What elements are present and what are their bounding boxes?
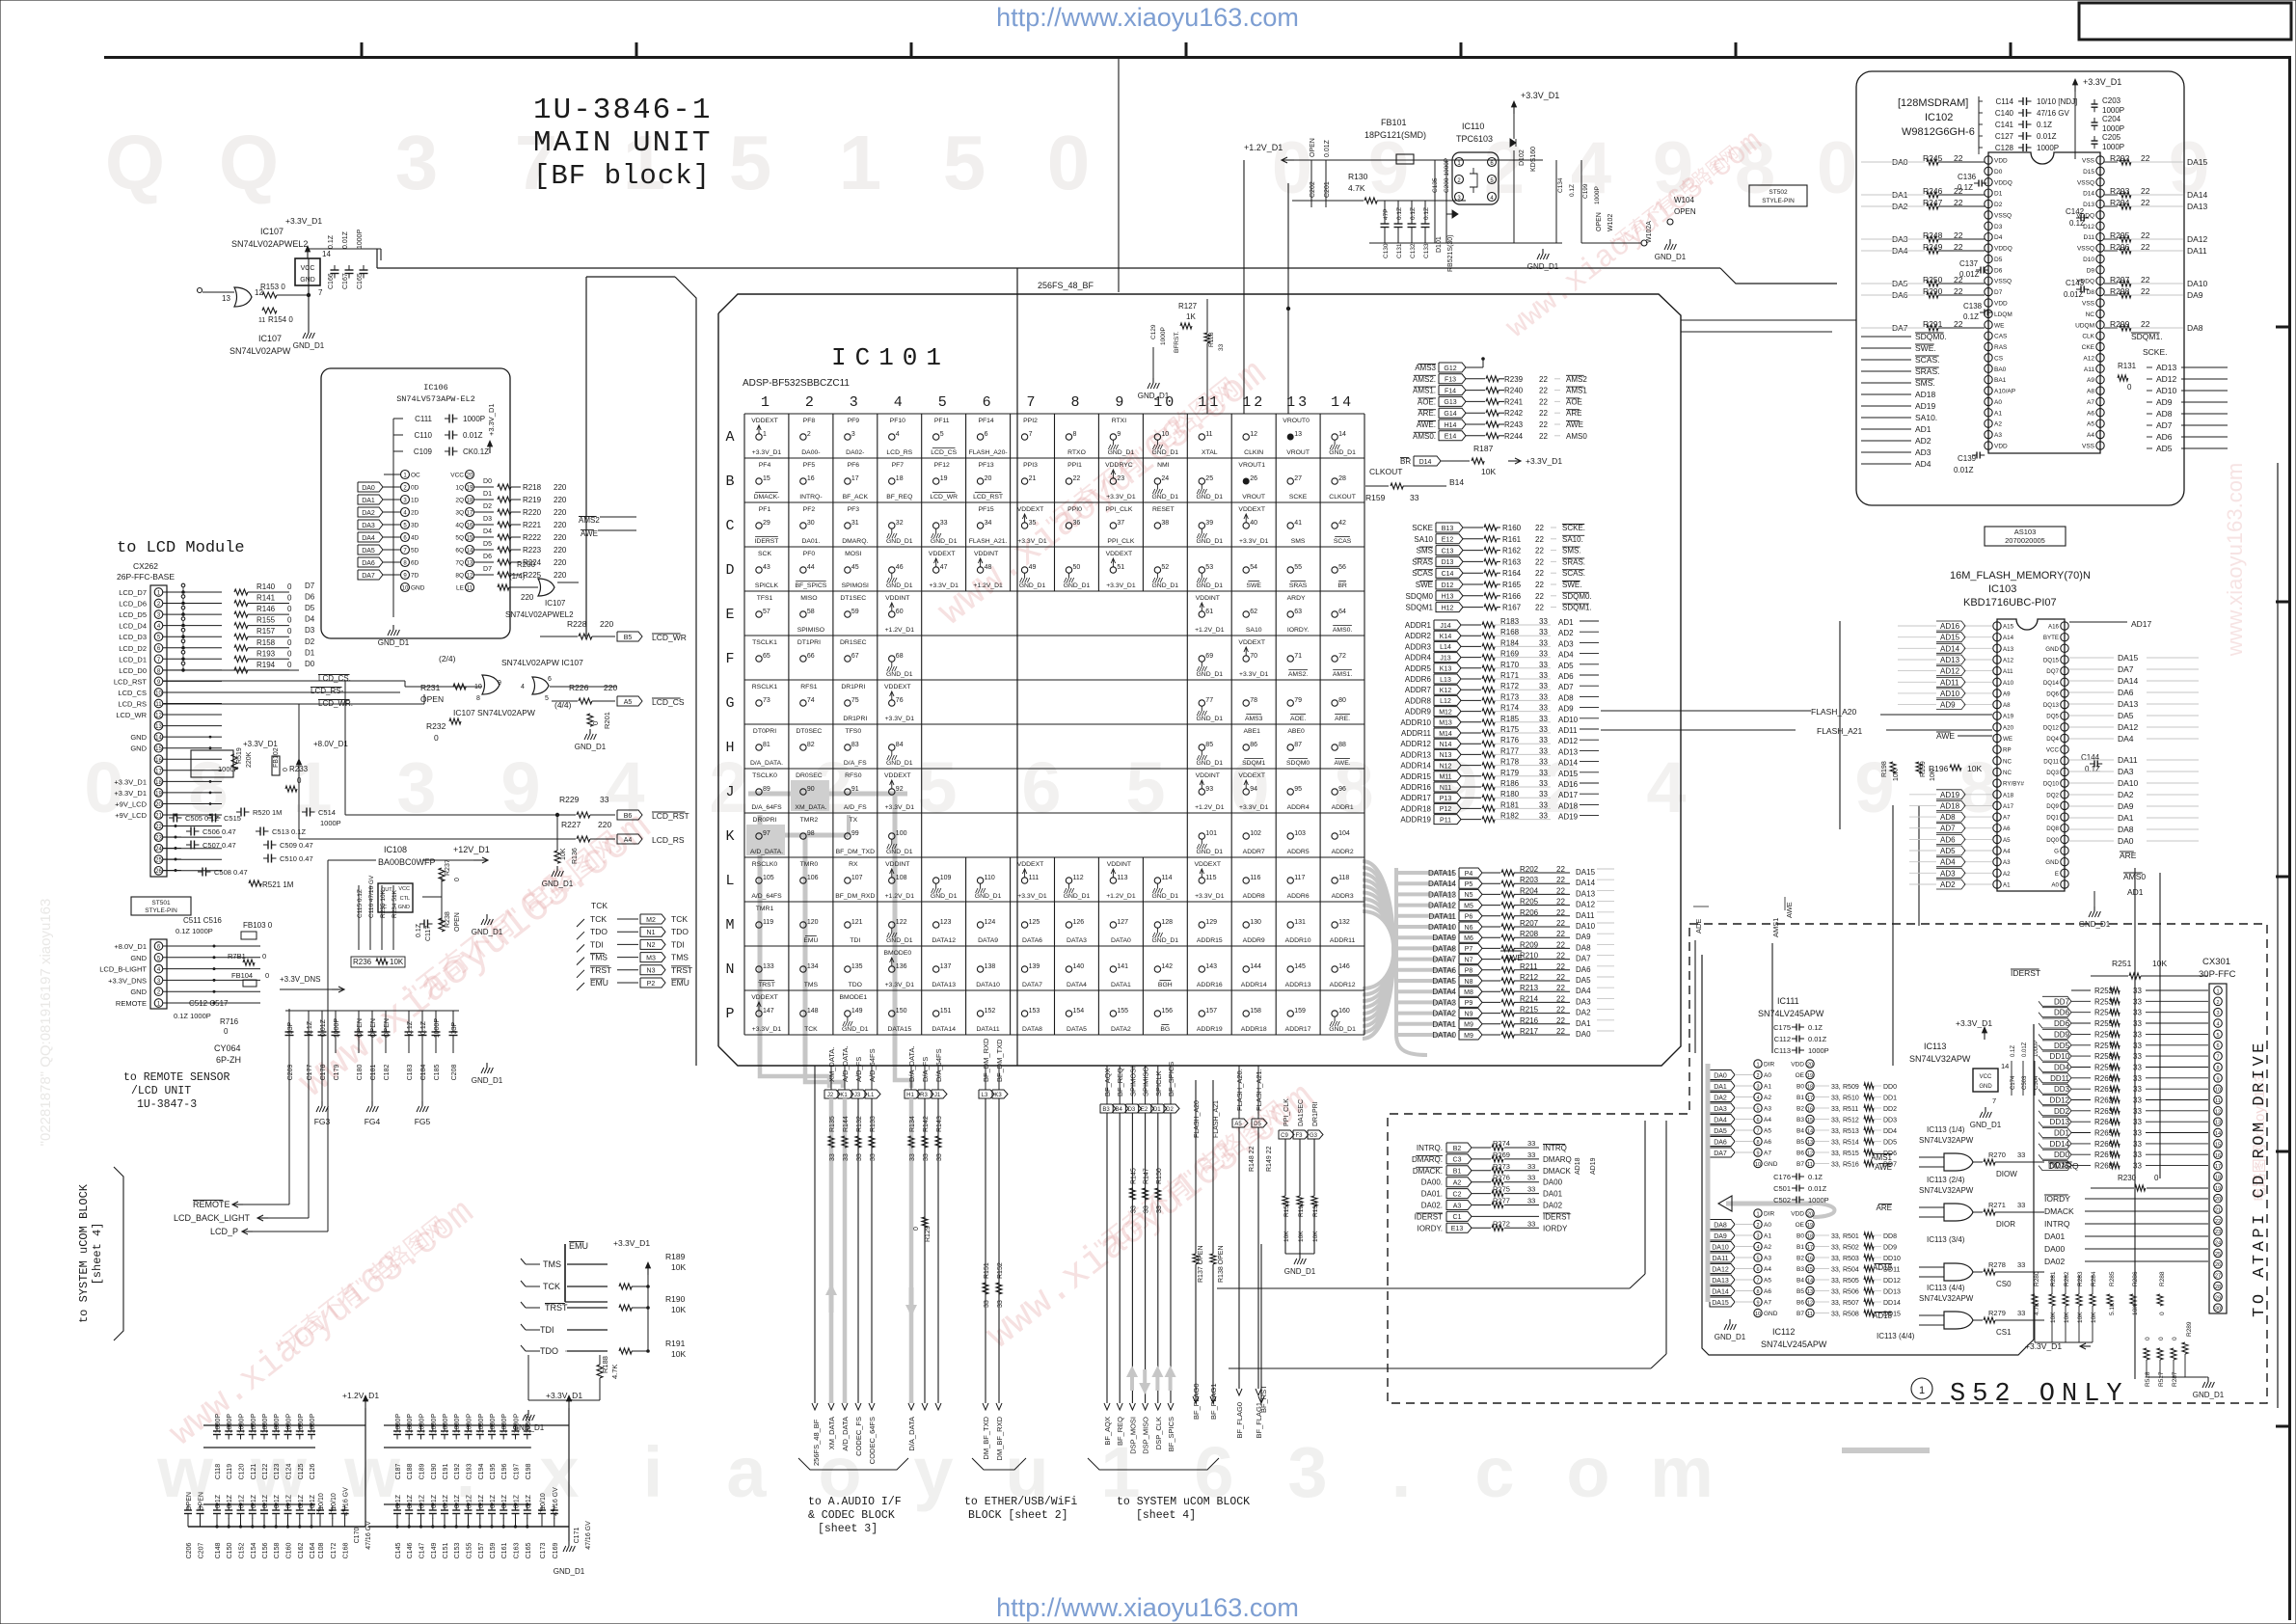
svg-text:220: 220 [554, 496, 567, 504]
svg-text:D: D [725, 562, 734, 579]
svg-text:FG4: FG4 [365, 1117, 381, 1126]
svg-text:SN74LV02APWEL2: SN74LV02APWEL2 [231, 239, 308, 249]
svg-text:18: 18 [896, 475, 904, 482]
svg-text:LCD_RST: LCD_RST [114, 677, 148, 686]
svg-text:TSCLK1: TSCLK1 [752, 639, 777, 646]
svg-text:DA9: DA9 [2187, 290, 2203, 300]
svg-text:92: 92 [896, 786, 904, 793]
svg-text:0.01Z: 0.01Z [2022, 1042, 2028, 1057]
svg-text:AMS1: AMS1 [1771, 918, 1780, 937]
svg-text:SRAS.: SRAS. [1915, 366, 1940, 376]
svg-text:AD19: AD19 [1590, 1157, 1597, 1175]
svg-text:RTXI: RTXI [1112, 418, 1126, 424]
svg-text:ADDR12: ADDR12 [1400, 740, 1431, 748]
svg-text:+12V_D1: +12V_D1 [453, 845, 490, 854]
svg-text:ADDR18: ADDR18 [1241, 1026, 1267, 1033]
svg-text:+3.3V_D1: +3.3V_D1 [1956, 1018, 1992, 1028]
svg-text:DA7: DA7 [2118, 664, 2134, 674]
svg-text:19: 19 [1807, 1223, 1813, 1229]
svg-text:113: 113 [1117, 875, 1127, 881]
svg-text:11: 11 [1205, 431, 1212, 438]
svg-text:22: 22 [2215, 1219, 2221, 1225]
svg-text:FLASH_A21: FLASH_A21 [1213, 1100, 1220, 1138]
svg-text:IC107 SN74LV02APW: IC107 SN74LV02APW [453, 708, 535, 717]
svg-text:VDDINT: VDDINT [1107, 861, 1131, 868]
svg-text:7D: 7D [411, 573, 419, 580]
svg-text:9: 9 [2216, 1076, 2219, 1082]
svg-text:33: 33 [2133, 1064, 2142, 1072]
svg-text:DA1SEC: DA1SEC [1298, 1099, 1305, 1126]
svg-text:0: 0 [283, 768, 289, 771]
svg-text:DA5: DA5 [2118, 711, 2134, 720]
svg-text:220: 220 [554, 508, 567, 517]
svg-text:6D: 6D [411, 560, 419, 567]
svg-text:18: 18 [2215, 1176, 2221, 1181]
svg-text:A/D_DATA.: A/D_DATA. [750, 849, 783, 855]
svg-text:IDERST: IDERST [1543, 1212, 1571, 1221]
svg-text:www.xiaoyu163.com: www.xiaoyu163.com [2223, 463, 2247, 658]
svg-text:CX262: CX262 [133, 561, 158, 571]
svg-text:DATA12: DATA12 [932, 937, 956, 944]
svg-text:F13: F13 [1445, 377, 1456, 384]
svg-text:K12: K12 [1440, 688, 1452, 694]
svg-text:10K: 10K [2091, 1312, 2097, 1323]
svg-text:22: 22 [1535, 547, 1544, 555]
svg-text:AD12: AD12 [1940, 667, 1960, 676]
svg-text:VDDRYC: VDDRYC [1105, 462, 1133, 469]
svg-text:10: 10 [402, 586, 409, 592]
svg-text:22: 22 [1539, 432, 1548, 441]
svg-text:DA7: DA7 [1714, 1150, 1727, 1157]
svg-text:22: 22 [1539, 409, 1548, 418]
svg-text:R189: R189 [665, 1252, 686, 1261]
svg-text:+3.3V_D1: +3.3V_D1 [929, 582, 959, 589]
svg-text:DSP_CLK: DSP_CLK [1154, 1417, 1163, 1449]
svg-text:IC106: IC106 [423, 383, 448, 392]
svg-text:DQ3: DQ3 [2046, 770, 2059, 776]
svg-text:B3: B3 [1796, 1266, 1804, 1273]
svg-text:R277: R277 [1493, 1197, 1510, 1205]
svg-text:D5: D5 [483, 541, 492, 548]
svg-text:85: 85 [1205, 742, 1213, 748]
svg-text:32: 32 [896, 520, 904, 527]
svg-text:DATA2: DATA2 [1432, 1010, 1456, 1018]
svg-text:DATA9: DATA9 [978, 937, 998, 944]
svg-text:AD2: AD2 [1940, 880, 1956, 889]
svg-text:0.1Z: 0.1Z [286, 1494, 293, 1508]
svg-text:0.1Z: 0.1Z [310, 1494, 316, 1508]
svg-text:7: 7 [1029, 431, 1033, 438]
svg-text:DD0: DD0 [2054, 1150, 2070, 1159]
svg-text:ADDR8: ADDR8 [1405, 696, 1432, 705]
svg-text:119: 119 [763, 919, 773, 926]
svg-text:DA15: DA15 [2118, 653, 2139, 663]
svg-text:R501: R501 [1843, 1233, 1859, 1240]
svg-text:33,: 33, [1831, 1096, 1841, 1102]
svg-text:+1.2V_D1: +1.2V_D1 [1195, 627, 1225, 634]
svg-text:C507 0.47: C507 0.47 [203, 841, 236, 850]
svg-text:1000P: 1000P [478, 1414, 485, 1434]
svg-text:8: 8 [2216, 1066, 2219, 1071]
svg-text:DA1: DA1 [1576, 1019, 1591, 1028]
svg-text:0: 0 [454, 878, 461, 881]
svg-text:A1: A1 [1994, 410, 2002, 417]
svg-text:R273: R273 [1493, 1162, 1510, 1171]
svg-text:E2: E2 [1141, 1107, 1148, 1113]
svg-text:R144: R144 [843, 1116, 850, 1132]
svg-text:SN74LV02APW IC107: SN74LV02APW IC107 [501, 658, 583, 667]
svg-text:M14: M14 [1439, 731, 1452, 738]
svg-text:0.1Z: 0.1Z [526, 1494, 532, 1508]
svg-text:R504: R504 [1843, 1267, 1859, 1274]
svg-text:40: 40 [1250, 520, 1257, 527]
svg-text:GND_D1: GND_D1 [542, 880, 574, 888]
svg-text:RP: RP [2003, 747, 2012, 754]
svg-text:LE: LE [456, 585, 465, 592]
svg-text:77: 77 [1205, 697, 1213, 704]
svg-text:M13: M13 [1439, 720, 1452, 727]
svg-text:AWE: AWE [1936, 731, 1955, 741]
svg-text:R276: R276 [1493, 1174, 1510, 1182]
svg-text:ADDR9: ADDR9 [1243, 937, 1265, 944]
svg-text:GND_D1: GND_D1 [1715, 1333, 1746, 1341]
svg-text:20: 20 [155, 802, 162, 808]
svg-text:220: 220 [604, 683, 617, 692]
svg-text:BR: BR [1400, 457, 1411, 466]
svg-text:0.1Z: 0.1Z [1808, 1173, 1823, 1181]
svg-text:GND: GND [2045, 646, 2059, 653]
svg-text:33: 33 [2133, 1140, 2142, 1149]
svg-text:7: 7 [2216, 1055, 2219, 1061]
svg-text:1000P: 1000P [395, 1414, 402, 1434]
svg-text:+3.3V_D1: +3.3V_D1 [114, 777, 147, 786]
svg-text:SN74LV245APW: SN74LV245APW [1758, 1009, 1824, 1018]
svg-text:87: 87 [1294, 742, 1302, 748]
svg-text:CODEC_FS: CODEC_FS [854, 1417, 863, 1456]
svg-text:8: 8 [1756, 1140, 1759, 1146]
svg-text:80: 80 [1338, 697, 1346, 704]
svg-text:AMS0: AMS0 [2123, 872, 2146, 881]
svg-text:1000P: 1000P [2102, 124, 2124, 133]
svg-text:0.01Z: 0.01Z [463, 431, 483, 440]
svg-text:AWE: AWE [1875, 1163, 1892, 1172]
svg-text:DATA13: DATA13 [1428, 890, 1457, 899]
svg-text:121: 121 [851, 919, 863, 926]
svg-text:GND_D1: GND_D1 [293, 341, 325, 350]
svg-text:AD8: AD8 [1558, 693, 1574, 702]
svg-text:INTRQ: INTRQ [1543, 1144, 1567, 1152]
svg-text:DA4: DA4 [1714, 1117, 1727, 1123]
svg-text:149: 149 [851, 1008, 863, 1015]
svg-text:[sheet 3]: [sheet 3] [818, 1523, 878, 1535]
svg-text:7: 7 [1756, 1129, 1759, 1135]
svg-text:R519: R519 [236, 747, 243, 764]
svg-text:11: 11 [155, 702, 162, 708]
svg-text:22: 22 [1539, 375, 1548, 384]
svg-text:R251: R251 [2112, 959, 2132, 968]
svg-text:DATA4: DATA4 [1432, 988, 1456, 996]
svg-text:16: 16 [2215, 1153, 2221, 1159]
svg-text:DD2: DD2 [1883, 1106, 1897, 1113]
svg-text:DA01: DA01 [2044, 1232, 2066, 1241]
svg-text:220: 220 [554, 521, 567, 529]
svg-text:LCD_D6: LCD_D6 [119, 600, 147, 609]
svg-text:GND: GND [130, 988, 147, 996]
svg-text:A/D_64FS: A/D_64FS [751, 893, 782, 900]
svg-text:B3: B3 [1102, 1107, 1110, 1113]
svg-text:2: 2 [805, 394, 817, 411]
svg-text:DA11: DA11 [2118, 755, 2138, 765]
svg-text:R274: R274 [1493, 1139, 1510, 1148]
svg-text:LCD_CS: LCD_CS [652, 697, 685, 707]
svg-text:VCC: VCC [398, 886, 410, 892]
svg-text:+3.3V_D1: +3.3V_D1 [885, 804, 915, 811]
svg-text:2D: 2D [411, 510, 419, 517]
svg-text:M: M [725, 917, 734, 934]
svg-text:A10: A10 [2003, 680, 2014, 687]
svg-text:R231: R231 [420, 683, 441, 692]
svg-text:C127: C127 [1995, 132, 2014, 141]
svg-text:A15: A15 [2003, 624, 2014, 631]
svg-text:+3.3V_DNS: +3.3V_DNS [280, 975, 320, 984]
svg-text:GND_D1: GND_D1 [1329, 449, 1356, 456]
svg-text:A13: A13 [2003, 646, 2014, 653]
svg-text:R167: R167 [1502, 604, 1522, 612]
svg-text:RAS: RAS [1994, 344, 2008, 351]
svg-text:DQ1: DQ1 [2046, 815, 2059, 822]
svg-text:6Q: 6Q [455, 548, 464, 555]
svg-text:DA4: DA4 [1576, 987, 1591, 995]
svg-text:20: 20 [1807, 1063, 1813, 1069]
svg-text:ARE: ARE [1877, 1204, 1892, 1212]
svg-text:0: 0 [434, 733, 439, 743]
svg-text:TMR1: TMR1 [756, 906, 774, 912]
svg-text:47/16 GV: 47/16 GV [365, 1521, 372, 1550]
svg-text:[128MSDRAM]: [128MSDRAM] [1898, 97, 1968, 109]
svg-text:IORDY.: IORDY. [1417, 1224, 1443, 1232]
svg-text:R517: R517 [2158, 1371, 2165, 1387]
svg-text:GND_D1: GND_D1 [1152, 893, 1179, 900]
svg-text:0.1Z: 0.1Z [2069, 219, 2085, 228]
svg-text:4: 4 [1756, 1245, 1759, 1251]
svg-text:GND_D1: GND_D1 [886, 582, 913, 589]
svg-text:10K: 10K [671, 1349, 686, 1359]
svg-text:156: 156 [1161, 1008, 1173, 1015]
svg-text:GND: GND [130, 733, 147, 742]
svg-text:0: 0 [287, 638, 292, 647]
svg-text:R158: R158 [257, 638, 276, 647]
svg-text:A3: A3 [1453, 1203, 1462, 1209]
svg-text:1000P: 1000P [298, 1414, 305, 1434]
svg-text:C502: C502 [1773, 1196, 1791, 1204]
svg-text:SDQM1: SDQM1 [1406, 604, 1434, 612]
svg-text:0.01Z: 0.01Z [1324, 139, 1331, 157]
svg-text:AMS2.: AMS2. [1288, 671, 1309, 678]
svg-text:AD6: AD6 [1940, 835, 1956, 844]
svg-text:P7: P7 [1465, 946, 1473, 953]
svg-text:P12: P12 [1440, 806, 1452, 813]
svg-text:1000P: 1000P [334, 1018, 340, 1039]
svg-text:PF0: PF0 [803, 551, 816, 557]
svg-text:47/16 GV: 47/16 GV [2037, 109, 2069, 118]
svg-text:ADDR14: ADDR14 [1241, 982, 1267, 988]
svg-text:N8: N8 [1465, 979, 1473, 986]
svg-text:G14: G14 [1444, 411, 1456, 418]
svg-text:R283: R283 [2077, 1271, 2084, 1286]
svg-text:10K: 10K [1967, 764, 1982, 773]
svg-text:M9: M9 [1464, 1022, 1473, 1029]
svg-text:60: 60 [896, 609, 904, 615]
svg-text:R223: R223 [523, 546, 542, 555]
svg-text:D/A_DATA.: D/A_DATA. [750, 760, 783, 767]
svg-text:DA10: DA10 [1712, 1244, 1729, 1251]
svg-text:0.1Z: 0.1Z [478, 1494, 485, 1508]
svg-text:9: 9 [498, 680, 501, 687]
svg-text:D6: D6 [305, 593, 315, 602]
svg-text:84: 84 [896, 742, 904, 748]
svg-text:DA14: DA14 [1712, 1288, 1729, 1295]
svg-text:SDQM1: SDQM1 [1242, 760, 1265, 767]
svg-text:GND_D1: GND_D1 [931, 893, 958, 900]
svg-text:4: 4 [1571, 127, 1611, 209]
svg-text:SN74LV32APW: SN74LV32APW [1919, 1294, 1974, 1303]
svg-text:H12: H12 [1442, 605, 1454, 611]
svg-text:TDI: TDI [671, 939, 685, 949]
svg-text:33,: 33, [1831, 1267, 1841, 1274]
svg-text:22: 22 [1954, 153, 1963, 163]
svg-text:GND_D1: GND_D1 [1197, 538, 1224, 545]
svg-text:IDERST: IDERST [755, 538, 779, 545]
svg-text:11: 11 [258, 317, 265, 324]
svg-text:+3.3V_D1: +3.3V_D1 [487, 403, 496, 436]
svg-text:GND_D1: GND_D1 [1655, 253, 1687, 261]
svg-text:140: 140 [1073, 963, 1085, 970]
svg-text:9: 9 [500, 747, 540, 827]
svg-text:256FS_48_BF: 256FS_48_BF [1038, 281, 1094, 290]
svg-text:OPEN: OPEN [384, 1018, 391, 1038]
svg-text:+1.2V_D1: +1.2V_D1 [1195, 804, 1225, 811]
svg-text:BF_FLAG0: BF_FLAG0 [1235, 1402, 1244, 1439]
svg-text:C153: C153 [454, 1543, 461, 1559]
svg-text:+3.3V_D1: +3.3V_D1 [1526, 456, 1562, 466]
svg-text:DATA9: DATA9 [1432, 934, 1456, 942]
svg-text:C146: C146 [407, 1543, 414, 1559]
svg-text:K14: K14 [1440, 634, 1452, 640]
svg-text:GND: GND [398, 905, 410, 910]
svg-text:UDQM: UDQM [2075, 322, 2094, 329]
svg-text:R191: R191 [665, 1339, 686, 1348]
svg-text:SCAS.: SCAS. [1915, 355, 1940, 365]
svg-text:LCD_D2: LCD_D2 [119, 644, 147, 653]
svg-text:A4: A4 [624, 837, 633, 844]
svg-text:R201: R201 [603, 712, 611, 729]
svg-text:105: 105 [763, 875, 774, 881]
svg-text:PF7: PF7 [892, 462, 905, 469]
svg-text:ADDR11: ADDR11 [1401, 729, 1432, 738]
svg-text:C181: C181 [370, 1065, 377, 1081]
svg-text:ADDR6: ADDR6 [1287, 893, 1310, 900]
svg-text:33: 33 [856, 1153, 863, 1161]
svg-text:33: 33 [870, 1153, 877, 1161]
svg-text:DQ7: DQ7 [2046, 668, 2059, 675]
svg-text:R240: R240 [1504, 387, 1524, 395]
svg-text:45: 45 [851, 564, 859, 571]
svg-text:.: . [1391, 1432, 1412, 1512]
svg-text:A5: A5 [1234, 1122, 1242, 1127]
svg-text:8: 8 [476, 695, 480, 702]
svg-text:A4: A4 [2087, 432, 2094, 439]
svg-text:VDDINT: VDDINT [1196, 595, 1220, 602]
svg-text:GND_D1: GND_D1 [1152, 582, 1179, 589]
svg-text:0.1Z: 0.1Z [1958, 183, 1973, 192]
svg-text:ST502: ST502 [1769, 189, 1788, 196]
svg-text:AWE: AWE [1504, 953, 1523, 962]
svg-text:AD17: AD17 [2131, 619, 2152, 629]
svg-text:25: 25 [1205, 475, 1213, 482]
svg-text:10: 10 [2215, 1088, 2221, 1094]
svg-text:1D: 1D [411, 498, 419, 504]
svg-text:R518: R518 [2145, 1371, 2151, 1387]
svg-text:33: 33 [2133, 1107, 2142, 1116]
svg-text:A/D_FS: A/D_FS [844, 804, 867, 811]
svg-text:W102: W102 [1607, 214, 1614, 231]
svg-text:10K: 10K [2050, 1312, 2057, 1323]
svg-text:M5: M5 [1464, 903, 1473, 909]
svg-text:VSSQ: VSSQ [2077, 179, 2094, 186]
svg-text:PF12: PF12 [934, 462, 950, 469]
svg-text:P13: P13 [1440, 796, 1452, 802]
svg-text:DD10: DD10 [2050, 1052, 2070, 1061]
svg-text:93: 93 [1205, 786, 1213, 793]
svg-text:0: 0 [287, 627, 292, 636]
svg-text:NC: NC [2003, 758, 2012, 765]
svg-text:AD4: AD4 [1915, 459, 1931, 469]
svg-text:DQ13: DQ13 [2043, 702, 2060, 709]
svg-text:AD9: AD9 [2156, 397, 2173, 407]
svg-text:C142: C142 [2066, 207, 2085, 216]
svg-text:8: 8 [1070, 394, 1082, 411]
svg-text:C128: C128 [1995, 144, 2014, 152]
svg-text:21: 21 [2215, 1208, 2221, 1214]
svg-text:4: 4 [2216, 1022, 2219, 1028]
svg-text:to LCD Module: to LCD Module [117, 539, 245, 557]
svg-text:DD7: DD7 [2054, 997, 2070, 1006]
svg-text:7: 7 [318, 288, 323, 297]
svg-text:C116 47/16 GV: C116 47/16 GV [368, 875, 375, 918]
svg-text:A2: A2 [2003, 871, 2011, 878]
svg-text:R232: R232 [426, 721, 446, 731]
svg-text:FLASH_A20-: FLASH_A20- [969, 449, 1008, 456]
svg-text:GND_D1: GND_D1 [554, 1567, 585, 1576]
svg-text:1000P: 1000P [1808, 1046, 1829, 1055]
svg-text:DD5: DD5 [1883, 1140, 1897, 1147]
svg-text:VDD: VDD [1791, 1211, 1804, 1218]
svg-text:10K: 10K [1312, 1231, 1319, 1242]
svg-text:22: 22 [155, 825, 162, 830]
svg-text:6: 6 [1021, 747, 1061, 827]
svg-text:IC107: IC107 [260, 227, 284, 236]
svg-text:0: 0 [591, 721, 600, 725]
svg-text:D0: D0 [1994, 169, 2003, 176]
svg-text:VDDQ: VDDQ [1994, 246, 2012, 253]
svg-text:A5: A5 [1764, 1128, 1771, 1135]
svg-text:M9: M9 [1464, 1033, 1473, 1040]
svg-text:A3: A3 [1994, 432, 2002, 439]
svg-text:VSS: VSS [2082, 444, 2095, 450]
svg-text:to A.AUDIO I/F: to A.AUDIO I/F [808, 1496, 902, 1508]
svg-text:DA6: DA6 [1576, 965, 1591, 974]
svg-text:C117: C117 [425, 926, 432, 941]
